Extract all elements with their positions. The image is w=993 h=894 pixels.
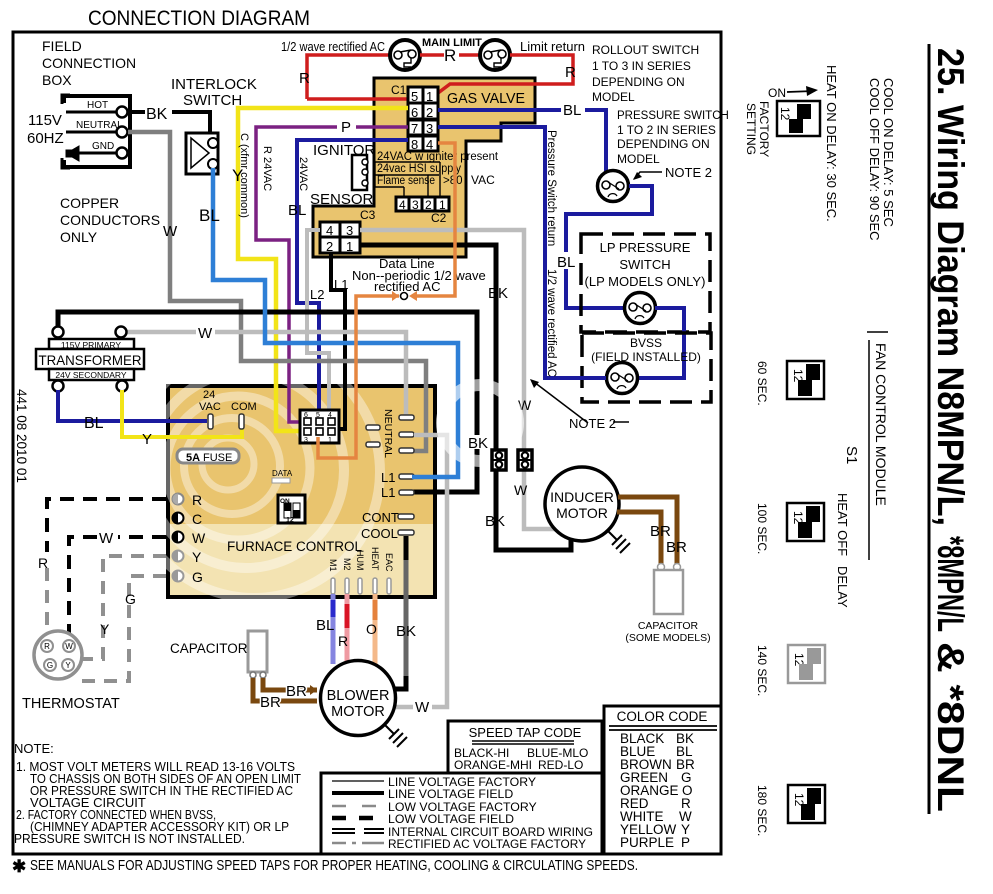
furnace control lower light band [170,524,433,595]
terminal Y [173,551,184,562]
wire lightgray W from C3 pin3 [360,230,556,529]
svg-text:4: 4 [426,137,433,152]
svg-text:BL: BL [557,254,575,271]
svg-text:G: G [47,661,53,670]
svg-text:GAS VALVE: GAS VALVE [447,91,525,107]
svg-text:BL: BL [563,102,581,119]
terminal slot COM [239,414,244,429]
ignitor info table [375,151,499,187]
svg-text:W: W [163,223,178,240]
notes text [14,741,301,846]
svg-text:Y: Y [192,549,202,565]
interlock switch triangle [191,138,209,168]
svg-text:L1: L1 [381,485,395,500]
wire red between limits [420,53,480,57]
svg-text:SEE MANUALS FOR ADJUSTING SPEE: SEE MANUALS FOR ADJUSTING SPEED TAPS FOR… [30,858,638,874]
svg-text:SENSOR: SENSOR [310,191,374,208]
svg-text:MOTOR: MOTOR [556,505,608,521]
svg-text:HUM: HUM [355,550,365,571]
svg-text:ROLLOUT SWITCH: ROLLOUT SWITCH [592,43,699,57]
terminal C [173,513,184,524]
wire gray L2 from C3 pin4 [307,230,329,419]
svg-text:DEPENDING ON: DEPENDING ON [592,75,685,89]
svg-text:DATA: DATA [272,469,293,478]
wire black L1 from C3 pin2 [331,253,345,429]
LP pressure switch box [581,234,710,332]
pressure switch [598,171,629,202]
wires table to C2 [404,162,440,198]
legend internal circuit board wiring [332,829,384,833]
wire navy BL gas valve pin2 to pressure switch [438,110,606,177]
svg-text:EAC: EAC [384,553,394,572]
dip switch 180 sec [788,785,825,823]
wire red into pin5 [307,97,408,101]
ground symbol [66,146,79,161]
label BL pressure loop [556,252,578,269]
svg-text:COOL ON DELAY: 5 SEC: COOL ON DELAY: 5 SEC [881,78,896,227]
interlock switch box [186,133,218,174]
wire navy 24VAC to C1 pin8 [297,140,408,419]
watermark swirl [128,346,380,598]
svg-text:BK: BK [468,435,488,452]
svg-text:O: O [366,621,377,637]
connector C1 [408,87,438,152]
wire brown inducer to cap left [617,512,661,564]
svg-text:HOT: HOT [87,100,108,111]
svg-text:L1: L1 [334,277,348,292]
wire purple P to C1 pin7 [256,127,408,422]
svg-text:P: P [681,835,690,850]
svg-text:S1: S1 [843,446,860,464]
svg-text:BK: BK [485,513,505,530]
blower ground [384,724,394,734]
node circle data line [401,293,408,300]
svg-text:24: 24 [203,389,215,401]
wire lightgray neutral slot2 to blower W [396,435,447,707]
wire dashed Y furnace to thermostat [76,556,166,659]
wire yellow Y loop to C1 pin6 [238,108,408,431]
svg-text:BVSS: BVSS [630,336,662,350]
svg-text:MOTOR: MOTOR [331,704,385,720]
svg-text:4: 4 [399,198,406,212]
svg-text:CONNECTION: CONNECTION [42,55,136,71]
wire navy BL transformer to 24VAC [58,390,207,421]
wire dashed W furnace to thermostat [69,537,166,640]
terminal R [173,494,184,505]
svg-text:DEPENDING ON: DEPENDING ON [617,137,710,151]
svg-text:115V: 115V [28,112,62,129]
wire R M2 to blower [345,594,350,670]
svg-text:DELAY: DELAY [835,566,850,608]
svg-text:R 24VAC: R 24VAC [261,146,273,191]
svg-text:Pressure Switch return: Pressure Switch return [545,130,557,246]
transformer 115V primary bar [49,339,134,349]
terminal slot 24VAC [208,414,213,429]
dip switch 60 sec [787,361,824,399]
svg-text:BR: BR [650,523,671,540]
svg-text:60 SEC.: 60 SEC. [755,361,769,406]
connector C3 [320,222,360,254]
svg-text:✱: ✱ [12,857,26,876]
wire brown inducer to cap right [618,497,677,564]
svg-text:C (xfmr common): C (xfmr common) [238,133,250,218]
svg-text:C2: C2 [431,211,447,225]
svg-text:HEAT: HEAT [370,547,380,571]
quick connect W [518,450,532,470]
wire dashed R furnace to thermostat [47,499,166,552]
svg-text:BR: BR [666,539,687,556]
svg-text:BL: BL [316,617,334,634]
svg-text:COLOR CODE: COLOR CODE [617,709,708,724]
svg-text:C: C [192,511,202,527]
blower motor [321,661,396,736]
svg-text:CONT: CONT [362,510,399,525]
wire orange data line right [412,143,455,296]
svg-text:BR: BR [260,694,281,711]
svg-text:BOX: BOX [42,72,72,88]
dip switch on board [278,495,305,524]
svg-text:CAPACITOR: CAPACITOR [170,641,248,656]
svg-text:7: 7 [411,121,418,136]
svg-text:Limit return: Limit return [520,39,585,54]
svg-text:3: 3 [346,223,353,238]
wire orange data line left [318,296,399,458]
dip switch 140 sec [788,645,825,683]
svg-text:SWITCH: SWITCH [619,257,670,272]
svg-text:3: 3 [426,121,433,136]
legend low voltage factory [332,805,384,808]
legend line voltage field [332,791,384,795]
transformer 24V secondary bar [49,369,134,380]
wire lightgray W transformer to NEUTRAL [127,332,412,418]
inducer capacitor terminals [658,564,665,571]
svg-text:MODEL: MODEL [617,152,660,166]
wire brightblue interlock BL to L1 [213,168,458,477]
svg-text:FUSE: FUSE [203,452,232,464]
thermostat [34,631,82,679]
legend low voltage field [332,816,384,821]
wire BK COOL to blower [404,536,409,560]
svg-text:PRESSURE SWITCH: PRESSURE SWITCH [617,110,729,122]
svg-text:HEAT ON DELAY: 30 SEC.: HEAT ON DELAY: 30 SEC. [824,65,839,222]
field box hook bottom [62,158,70,168]
main border frame [13,32,721,854]
svg-text:M1: M1 [328,559,338,572]
svg-text:8: 8 [411,137,418,152]
svg-text:C3: C3 [360,208,376,222]
svg-text:LOW VOLTAGE FIELD: LOW VOLTAGE FIELD [388,812,514,826]
wire BL M1 to blower [331,594,336,664]
svg-text:rectified AC: rectified AC [374,279,440,294]
connector C2 [396,197,449,212]
svg-text:(SOME MODELS): (SOME MODELS) [625,632,710,644]
svg-text:(FIELD INSTALLED): (FIELD INSTALLED) [591,350,701,364]
svg-text:1: 1 [426,89,433,104]
svg-text:2: 2 [426,105,433,120]
svg-text:INDUCER: INDUCER [550,489,614,505]
svg-text:PURPLE: PURPLE [620,835,674,850]
svg-text:CONNECTION DIAGRAM: CONNECTION DIAGRAM [88,7,310,30]
wire navy pressure switch to LP [566,186,652,308]
svg-text:LP PRESSURE: LP PRESSURE [600,240,691,255]
svg-text:NOTE 2: NOTE 2 [569,416,616,431]
label FAN CONTROL MODULE [868,340,870,560]
svg-text:CONDUCTORS: CONDUCTORS [60,212,160,228]
neutral slot 2 [399,432,414,437]
svg-text:100 SEC.: 100 SEC. [755,503,769,554]
svg-text:FURNACE CONTROL: FURNACE CONTROL [227,539,362,554]
svg-text:2: 2 [425,198,432,212]
label BL gas valve [561,101,585,117]
svg-text:6: 6 [411,105,418,120]
legend line voltage factory [332,780,384,782]
svg-text:>80: >80 [443,175,463,187]
svg-text:R: R [192,492,202,508]
svg-text:SETTING: SETTING [744,103,758,155]
svg-text:G: G [125,591,136,607]
svg-text:NOTE:: NOTE: [14,741,54,756]
label W lightgray [196,324,215,340]
svg-text:FIELD: FIELD [42,38,82,54]
svg-text:LINE VOLTAGE FIELD: LINE VOLTAGE FIELD [388,787,513,801]
svg-text:BK: BK [396,623,416,640]
svg-text:*8MPN/L: *8MPN/L [930,536,971,632]
svg-text:FAN CONTROL MODULE: FAN CONTROL MODULE [873,343,889,506]
svg-text:24VAC w igniter present: 24VAC w igniter present [377,151,499,163]
wire O HEAT to blower [373,594,378,664]
wire BK hot to interlock [128,112,210,134]
svg-text:24vac HSI supply: 24vac HSI supply [377,163,461,175]
svg-text:W: W [65,642,73,651]
svg-text:BLOWER: BLOWER [327,688,390,704]
svg-text:2: 2 [326,239,333,254]
svg-text:R: R [299,70,310,87]
dip switch 100 sec [787,503,824,541]
wire navy BVSS return riser [438,127,606,378]
svg-text:BL: BL [199,206,220,225]
svg-text:1/2 wave rectified AC: 1/2 wave rectified AC [545,269,557,377]
wire gray W neutral to furnace NEUTRAL [128,132,426,451]
note2 arrow lower [534,382,588,423]
color code box [604,706,721,854]
svg-text:BK: BK [488,285,508,302]
svg-text:COPPER: COPPER [60,195,119,211]
terminal W [173,532,184,543]
legend box [321,773,602,854]
quick connect BK [492,450,506,470]
svg-text:VAC: VAC [199,401,221,413]
terminal G [173,571,184,582]
svg-text:NOTE 2: NOTE 2 [665,165,712,180]
spare slots [366,425,380,430]
svg-text:1: 1 [346,239,353,254]
svg-text:INTERLOCK: INTERLOCK [171,76,257,93]
furnace control block [168,386,435,597]
svg-text:3: 3 [304,437,308,444]
field box hook top [62,95,70,104]
wire black field to L1 [58,312,477,492]
svg-text:W: W [514,482,528,498]
svg-text:L1: L1 [381,470,395,485]
svg-text:1: 1 [328,437,332,444]
label BK black L1 wire [468,435,489,449]
label P [337,119,356,134]
dip switch factory setting [777,101,820,136]
svg-text:TRANSFORMER: TRANSFORMER [39,352,142,368]
data slot [272,478,290,483]
BVSS contact [607,363,638,394]
interlock contact circles [208,138,218,148]
svg-text:4: 4 [326,223,333,238]
wire yellow Y transformer to COM [122,390,242,437]
transformer terminals [53,327,64,338]
svg-text:1/2 wave rectified AC: 1/2 wave rectified AC [281,40,385,54]
svg-text:BK: BK [146,106,168,123]
gas valve block [313,78,535,257]
svg-text:W: W [192,530,206,546]
LP pressure switch contact [625,293,656,324]
blower capacitor [248,631,267,672]
svg-text:24V SECONDARY: 24V SECONDARY [55,370,127,380]
svg-text:P: P [341,119,351,136]
field connection box outline [64,96,130,167]
svg-text:R: R [38,555,48,571]
svg-text:25. Wiring Diagram N8MPN/L,: 25. Wiring Diagram N8MPN/L, [930,48,971,526]
inducer motor [545,467,619,541]
wire black BK from C3 pin1 [360,245,571,550]
wire navy LP to BVSS [639,308,684,378]
svg-text:1: 1 [439,198,446,212]
svg-text:24VAC: 24VAC [297,157,309,191]
legend rectified ac voltage factory [332,842,384,845]
main limit switch 1 [390,40,420,70]
svg-text:Y: Y [65,661,71,670]
svg-text:SPEED TAP CODE: SPEED TAP CODE [469,725,582,740]
svg-text:SWITCH: SWITCH [183,92,242,109]
svg-text:COOL OFF DELAY: 90 SEC: COOL OFF DELAY: 90 SEC [867,78,882,241]
wire red left riser [307,55,389,99]
svg-text:NEUTRAL: NEUTRAL [382,409,394,458]
orange arrowhead right [409,291,417,301]
svg-text:Flame sense: Flame sense [377,175,435,187]
svg-text:R: R [44,642,50,651]
watermark ghost ring [442,385,518,461]
svg-text:HEAT OFF: HEAT OFF [835,493,850,556]
label W blower [413,698,432,714]
transformer body [36,349,144,369]
svg-text:M2: M2 [342,558,352,571]
inducer capacitor [654,570,683,614]
svg-text:ORANGE-MHI: ORANGE-MHI [454,758,532,772]
svg-text:BR: BR [286,683,307,700]
svg-text:(LP MODELS ONLY): (LP MODELS ONLY) [585,274,706,289]
svg-text:W: W [99,530,114,547]
neutral slot 1 [399,415,414,420]
svg-text:ONLY: ONLY [60,229,98,245]
svg-text:12: 12 [778,107,792,121]
svg-text:BL: BL [84,415,104,432]
neutral slot 3 [399,448,414,453]
svg-text:FACTORY: FACTORY [757,101,771,157]
wire dashed G furnace to thermostat [80,576,166,681]
svg-text:1 TO 3 IN SERIES: 1 TO 3 IN SERIES [592,59,691,73]
svg-text:140 SEC.: 140 SEC. [755,645,769,696]
svg-text:COOL: COOL [361,526,398,541]
svg-text:C1: C1 [391,83,407,97]
wire brown cap to blower upper [263,678,317,690]
svg-text:R: R [338,633,348,649]
ignitor connector [352,155,367,190]
note2 arrow upper [634,172,662,179]
inducer ground [608,531,617,540]
svg-text:W: W [198,325,213,342]
svg-text:CAPACITOR: CAPACITOR [638,620,699,632]
svg-text:PRESSURE SWITCH IS NOT INSTALL: PRESSURE SWITCH IS NOT INSTALLED. [14,831,245,846]
svg-text:R: R [444,46,456,65]
svg-text:5A: 5A [186,452,200,464]
svg-text:1 TO 2 IN SERIES: 1 TO 2 IN SERIES [617,123,716,137]
12 pin connector [300,410,339,444]
5A fuse [177,449,239,463]
svg-text:180 SEC.: 180 SEC. [755,785,769,836]
wire red limit return [438,55,573,93]
svg-text:L2: L2 [310,287,324,302]
svg-text:G: G [192,569,203,585]
speed tap code box [448,721,602,773]
svg-text:441 08 2010 01: 441 08 2010 01 [14,389,29,483]
BVSS box [582,333,711,402]
svg-text:Y: Y [100,621,110,637]
blower capacitor terminals [250,672,256,678]
wire brown cap to blower lower [253,678,317,701]
svg-text:THERMOSTAT: THERMOSTAT [22,696,120,712]
svg-text:5: 5 [411,89,418,104]
right panel big title underline [928,44,931,814]
svg-text:ON: ON [768,86,786,100]
svg-text:60HZ: 60HZ [27,130,64,147]
orange arrowhead left [392,291,399,301]
svg-text:3: 3 [412,198,419,212]
svg-text:RED-LO: RED-LO [538,758,583,772]
svg-text:GND: GND [92,141,114,152]
svg-text:MODEL: MODEL [592,90,635,104]
svg-text:BL: BL [288,202,306,219]
svg-text:COM: COM [231,401,257,413]
svg-text:VAC: VAC [471,173,495,187]
svg-text:R: R [565,64,576,81]
svg-text:& *8DNL: & *8DNL [930,642,971,812]
main limit switch 2 [480,40,510,70]
svg-text:12: 12 [286,517,294,524]
svg-text:Y: Y [142,431,152,448]
svg-text:RECTIFIED AC VOLTAGE FACTORY: RECTIFIED AC VOLTAGE FACTORY [388,837,586,851]
svg-text:W: W [415,699,430,716]
